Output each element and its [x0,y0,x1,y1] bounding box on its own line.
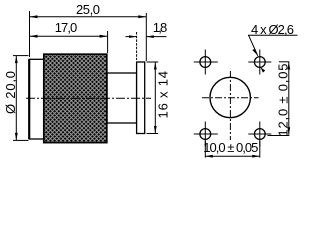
svg-text:10,0 ± 0,05: 10,0 ± 0,05 [203,140,258,155]
svg-text:16 x 14: 16 x 14 [155,71,170,119]
svg-text:17,0: 17,0 [55,20,78,35]
svg-text:25,0: 25,0 [76,2,100,17]
svg-text:12,0 ± 0,05: 12,0 ± 0,05 [275,64,290,137]
svg-text:Ø 20,0: Ø 20,0 [3,71,18,114]
svg-text:1,8: 1,8 [153,20,168,35]
